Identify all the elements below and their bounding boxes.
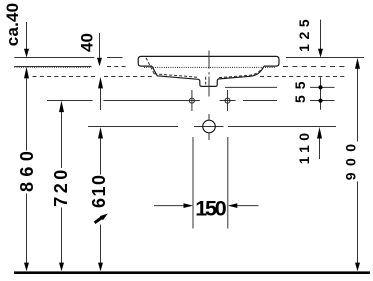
washbasin rim profile	[138, 56, 279, 66]
hidden rim bottom dotted	[144, 66, 276, 68]
fixing hole left	[189, 98, 194, 103]
dimension 40 upper arrow	[99, 33, 101, 58]
dimension 150 arrow right	[236, 205, 259, 207]
dimension ca.40 arrow	[26, 22, 28, 49]
dimension 55 dot lower	[318, 99, 322, 103]
line B dashed mid	[107, 66, 128, 68]
hidden line dotted left extension	[14, 66, 91, 68]
dimension 860 line	[26, 78, 28, 263]
fixing hole left crosshair	[191, 90, 193, 111]
svg-text:900: 900	[343, 137, 359, 180]
svg-text:ca.40: ca.40	[3, 3, 22, 47]
dimension 55 line	[320, 77, 322, 110]
dimension 150 arrow left	[154, 205, 185, 207]
dimension 150 extension left	[192, 137, 194, 229]
drain centerline	[208, 51, 210, 141]
svg-text:720: 720	[51, 166, 71, 207]
dimension 40 lower arrow	[100, 88, 102, 110]
direction arrow	[95, 217, 103, 223]
svg-text:860: 860	[17, 146, 37, 192]
hidden drain dashed	[205, 77, 207, 85]
dimension 110 arrow	[319, 138, 321, 159]
dimension 900 line	[357, 69, 359, 264]
line A rim-top extension right	[286, 57, 364, 59]
dimension 125 arrow	[320, 20, 322, 49]
svg-text:55: 55	[292, 75, 308, 103]
svg-text:150: 150	[195, 196, 227, 220]
line A rim-top extension left	[14, 57, 122, 59]
line B dashed right	[283, 66, 346, 68]
line D fixing-holes level	[47, 100, 335, 102]
drain hole	[203, 120, 216, 133]
line B rim-bottom extension left solid	[14, 66, 91, 68]
hidden basin wall right dashed	[219, 68, 263, 78]
hidden basin bottom dashed	[154, 74, 197, 77]
line C dashed mirror level	[33, 76, 346, 78]
dimension 150 extension right	[227, 137, 229, 229]
floor line	[14, 271, 370, 274]
svg-text:125: 125	[296, 15, 312, 52]
fixing hole right	[225, 98, 230, 103]
line E drain level	[88, 126, 336, 128]
dimension 55 dot upper	[318, 85, 322, 89]
svg-text:610: 610	[89, 173, 109, 208]
fixing hole right crosshair	[227, 90, 229, 111]
hidden basin wall left dashed	[146, 58, 154, 74]
washbasin underside shell	[152, 66, 264, 86]
dimension 610 line	[100, 138, 102, 263]
dimension 720 line	[61, 112, 63, 263]
svg-text:40: 40	[77, 33, 96, 52]
line F trap-bottom extension	[225, 86, 335, 88]
svg-text:110: 110	[296, 129, 312, 165]
